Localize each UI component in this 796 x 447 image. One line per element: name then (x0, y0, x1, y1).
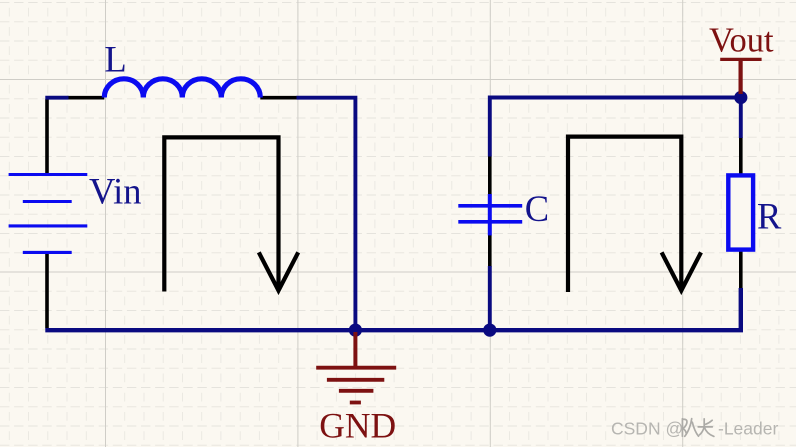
svg-text:R: R (757, 195, 782, 236)
svg-text:GND: GND (319, 406, 396, 446)
svg-text:CSDN @: CSDN @ (611, 419, 683, 439)
svg-text:-Leader: -Leader (718, 419, 778, 439)
svg-text:Vout: Vout (709, 21, 774, 59)
svg-text:Vin: Vin (89, 170, 142, 211)
svg-text:L: L (104, 39, 126, 80)
svg-text:C: C (525, 188, 549, 229)
